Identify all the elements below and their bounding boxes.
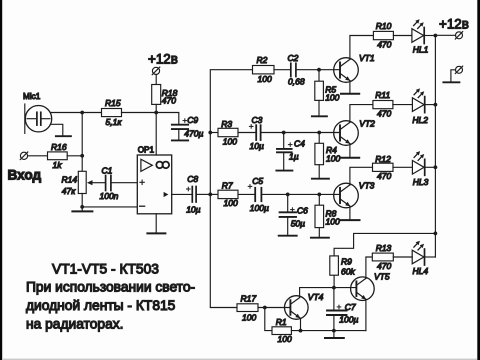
svg-text:R10: R10 <box>376 21 392 31</box>
svg-text:100n: 100n <box>100 191 119 201</box>
wire node down to R14 <box>81 113 83 172</box>
mic ground wire <box>50 124 62 135</box>
junction bus row3 <box>208 193 212 197</box>
svg-text:+12в: +12в <box>148 52 178 67</box>
left letterbox bar <box>0 0 2 360</box>
VT1 collector wire <box>350 36 374 60</box>
svg-text:470: 470 <box>377 261 391 271</box>
svg-text:1k: 1k <box>53 160 63 170</box>
svg-text:R3: R3 <box>221 119 232 129</box>
capacitor C6 <box>280 194 296 234</box>
svg-text:R9: R9 <box>341 256 352 266</box>
transistor VT4 <box>285 296 309 320</box>
svg-text:100: 100 <box>242 312 256 322</box>
junction C4 <box>282 131 286 135</box>
svg-text:60k: 60k <box>341 266 355 276</box>
capacitor C9 <box>172 125 188 140</box>
+12v supply terminal (right) <box>455 32 462 39</box>
wire to OP1 inverting input <box>82 206 137 208</box>
svg-text:Mic1: Mic1 <box>23 92 41 101</box>
OP1 ground pin <box>155 214 157 233</box>
LED supply bus <box>434 36 436 258</box>
resistor R12 <box>373 163 394 171</box>
junction bus row2 <box>208 131 212 135</box>
junction VT4 emitter <box>299 329 303 333</box>
svg-text:HL1: HL1 <box>413 44 429 54</box>
svg-text:диодной ленты - КТ815: диодной ленты - КТ815 <box>26 298 176 313</box>
wire R7 to C5 <box>238 193 255 195</box>
svg-text:47к: 47к <box>62 186 76 196</box>
svg-text:HL4: HL4 <box>413 266 429 276</box>
LED HL4 <box>412 241 435 265</box>
resistor R15 <box>102 109 122 117</box>
ground (R14) <box>72 210 92 212</box>
junction bus top <box>434 34 438 38</box>
junction C7/ground <box>332 329 336 333</box>
input terminal <box>20 152 28 160</box>
wire bus to +12v terminal <box>435 34 455 36</box>
wire R10 to HL1 <box>393 35 412 37</box>
ground (OP1) <box>147 232 165 234</box>
transistor VT3 <box>334 183 359 208</box>
wire input to R16 <box>28 155 48 157</box>
junction R18/OP1 supply <box>154 111 158 115</box>
svg-text:R17: R17 <box>241 294 257 304</box>
svg-text:100: 100 <box>325 92 339 102</box>
svg-text:100: 100 <box>224 198 238 208</box>
wire R1 along emitter rail <box>291 330 366 332</box>
svg-text:100: 100 <box>326 217 340 227</box>
resistor R1 <box>272 327 291 335</box>
svg-text:100µ: 100µ <box>339 315 358 325</box>
wire bus to R3 <box>210 132 218 134</box>
wire C5 to VT3 base <box>262 193 340 195</box>
transistor VT5 <box>351 277 375 301</box>
label + (C3) <box>249 125 253 129</box>
OP1 power pin <box>155 113 157 156</box>
svg-text:VT1: VT1 <box>359 53 375 63</box>
resistor R10 <box>373 31 393 39</box>
svg-text:C4: C4 <box>294 139 305 149</box>
ground (VT2) <box>341 157 359 159</box>
ground (mic) <box>56 135 71 137</box>
wire R2 to C2 <box>274 69 290 71</box>
svg-text:470: 470 <box>162 95 176 105</box>
bottom edge line <box>2 359 477 360</box>
capacitor C3 <box>256 125 260 140</box>
junction R17/R1 <box>263 306 267 310</box>
svg-text:100: 100 <box>326 154 340 164</box>
wire R11 to HL2 <box>393 104 413 106</box>
wire mic to R15 <box>50 112 101 114</box>
label +C9 <box>183 119 187 123</box>
svg-text:C3: C3 <box>252 115 263 125</box>
transistor VT1 <box>334 58 359 83</box>
svg-text:C1: C1 <box>102 165 113 175</box>
junction mic/R16 node <box>80 111 84 115</box>
svg-text:C8: C8 <box>187 174 198 184</box>
ground (C4) <box>276 170 292 172</box>
op-amp OP1 <box>137 155 171 214</box>
svg-text:C5: C5 <box>252 176 263 186</box>
capacitor C2 <box>291 63 296 76</box>
+12v supply terminal (left) <box>152 67 160 75</box>
resistor R7 <box>218 190 238 198</box>
svg-text:OP1: OP1 <box>138 145 155 154</box>
wire C3 to VT2 base <box>262 132 341 134</box>
junction R9/C7/VT5 base <box>332 286 336 290</box>
junction bus HL3 <box>434 165 438 169</box>
VT1 emitter wire <box>349 81 351 93</box>
wire junction down to R1 <box>265 308 272 331</box>
junction R8 <box>317 193 321 197</box>
svg-text:R14: R14 <box>62 174 78 184</box>
R14 bottom lead <box>81 194 83 211</box>
svg-text:5,1к: 5,1к <box>106 117 123 127</box>
svg-text:+12в: +12в <box>439 16 469 31</box>
common terminal <box>451 66 463 82</box>
VT3 collector wire <box>350 167 373 185</box>
signal bus <box>210 70 252 308</box>
junction C6 <box>286 193 290 197</box>
VT4 collector wire <box>300 288 357 298</box>
junction R14/inverting input <box>80 205 84 209</box>
svg-text:0,68: 0,68 <box>288 76 305 86</box>
svg-text:R1: R1 <box>276 317 287 327</box>
resistor R2 <box>253 66 275 74</box>
VT2 emitter wire <box>349 144 351 157</box>
capacitor C5 <box>255 188 261 201</box>
ground (common terminal) <box>443 81 459 83</box>
capacitor C1 <box>106 176 138 191</box>
wire R15 to R18 node <box>122 112 157 114</box>
resistor R16 <box>48 152 68 160</box>
wire R17 to VT4 base <box>258 307 290 309</box>
resistor R8 <box>315 194 324 237</box>
resistor R4 <box>315 133 324 178</box>
ground (R4) <box>312 178 329 180</box>
svg-text:Вход: Вход <box>8 168 42 183</box>
junction bus HL2 <box>434 103 438 107</box>
junction R5 <box>317 68 321 72</box>
junction R4 <box>317 131 321 135</box>
wire R16 to node <box>67 155 82 157</box>
svg-text:HL3: HL3 <box>413 177 429 187</box>
label + (C7) <box>337 305 341 309</box>
svg-text:VT5: VT5 <box>374 271 390 281</box>
svg-text:VT1-VT5 - КТ503: VT1-VT5 - КТ503 <box>52 262 159 277</box>
svg-text:470: 470 <box>377 109 391 119</box>
svg-text:470: 470 <box>377 39 391 49</box>
label + (C8) <box>187 187 191 191</box>
ground (R5) <box>312 115 327 117</box>
svg-text:100µ: 100µ <box>250 203 269 213</box>
right letterbox bar <box>477 0 480 360</box>
wire R12 to HL3 <box>393 166 412 168</box>
svg-text:на радиаторах.: на радиаторах. <box>26 317 124 332</box>
svg-text:C2: C2 <box>288 53 299 63</box>
wire node to C9 <box>156 113 179 125</box>
ground (C6) <box>279 235 297 237</box>
VT2 collector wire <box>350 105 373 123</box>
wire R13 to HL4 <box>393 256 412 258</box>
svg-text:100: 100 <box>258 74 272 84</box>
ground (VT1) <box>341 93 359 95</box>
svg-text:1µ: 1µ <box>289 152 299 162</box>
ground (C9) <box>172 139 188 141</box>
VT5 emitter wire <box>365 299 367 330</box>
wire R3 to C3 <box>238 132 256 134</box>
capacitor C7 <box>327 288 347 331</box>
svg-text:VT2: VT2 <box>359 118 375 128</box>
resistor R18 <box>152 75 161 113</box>
wire bus to R7 <box>210 193 218 195</box>
svg-text:VT4: VT4 <box>308 292 324 302</box>
ground (VT3) <box>341 219 360 221</box>
label + (C4) <box>288 143 292 147</box>
LED HL2 <box>412 88 435 112</box>
svg-text:C6: C6 <box>297 205 308 215</box>
svg-text:470: 470 <box>377 171 391 181</box>
svg-text:R15: R15 <box>105 98 121 108</box>
svg-text:10µ: 10µ <box>186 205 200 215</box>
LED HL3 <box>412 151 435 175</box>
resistor R5 <box>315 70 324 116</box>
VT4 emitter lead <box>300 318 302 330</box>
svg-text:HL2: HL2 <box>412 115 428 125</box>
svg-text:VT3: VT3 <box>359 180 375 190</box>
svg-text:100: 100 <box>278 334 292 344</box>
wire R9 to LED bus <box>334 233 435 256</box>
VT3 emitter wire <box>349 206 351 219</box>
wire OP1 output to C8 <box>172 193 192 195</box>
ground (R8) <box>311 237 329 239</box>
resistor R9 <box>330 256 339 288</box>
svg-text:R13: R13 <box>376 243 392 253</box>
junction R16/R14 <box>80 154 84 158</box>
svg-text:10µ: 10µ <box>250 141 264 151</box>
svg-text:R11: R11 <box>375 90 390 100</box>
junction bus feed <box>434 232 438 236</box>
resistor R3 <box>218 128 238 136</box>
label + (C5) <box>248 185 252 189</box>
wire C2 to VT1 base <box>297 69 340 71</box>
ground (main bottom) <box>325 331 344 338</box>
potentiometer R14 <box>78 171 105 193</box>
svg-text:C9: C9 <box>187 115 198 125</box>
capacitor C4 <box>277 133 292 170</box>
microphone Mic1 <box>25 104 52 133</box>
svg-text:470µ: 470µ <box>184 128 203 138</box>
svg-text:R7: R7 <box>222 181 233 191</box>
svg-text:R12: R12 <box>375 154 391 164</box>
svg-text:50µ: 50µ <box>291 219 305 229</box>
resistor R17 <box>237 304 258 312</box>
resistor R11 <box>373 101 393 109</box>
resistor R13 <box>372 253 393 261</box>
svg-text:R2: R2 <box>257 55 268 65</box>
transistor VT2 <box>334 121 359 146</box>
svg-text:100: 100 <box>223 136 237 146</box>
label + (C6) <box>291 208 295 212</box>
svg-text:C7: C7 <box>345 302 356 312</box>
VT5 collector wire <box>366 257 372 278</box>
capacitor C8 <box>192 187 210 203</box>
LED HL1 <box>412 19 436 43</box>
svg-text:R16: R16 <box>51 142 67 152</box>
svg-text:При использовании свето-: При использовании свето- <box>26 280 195 295</box>
